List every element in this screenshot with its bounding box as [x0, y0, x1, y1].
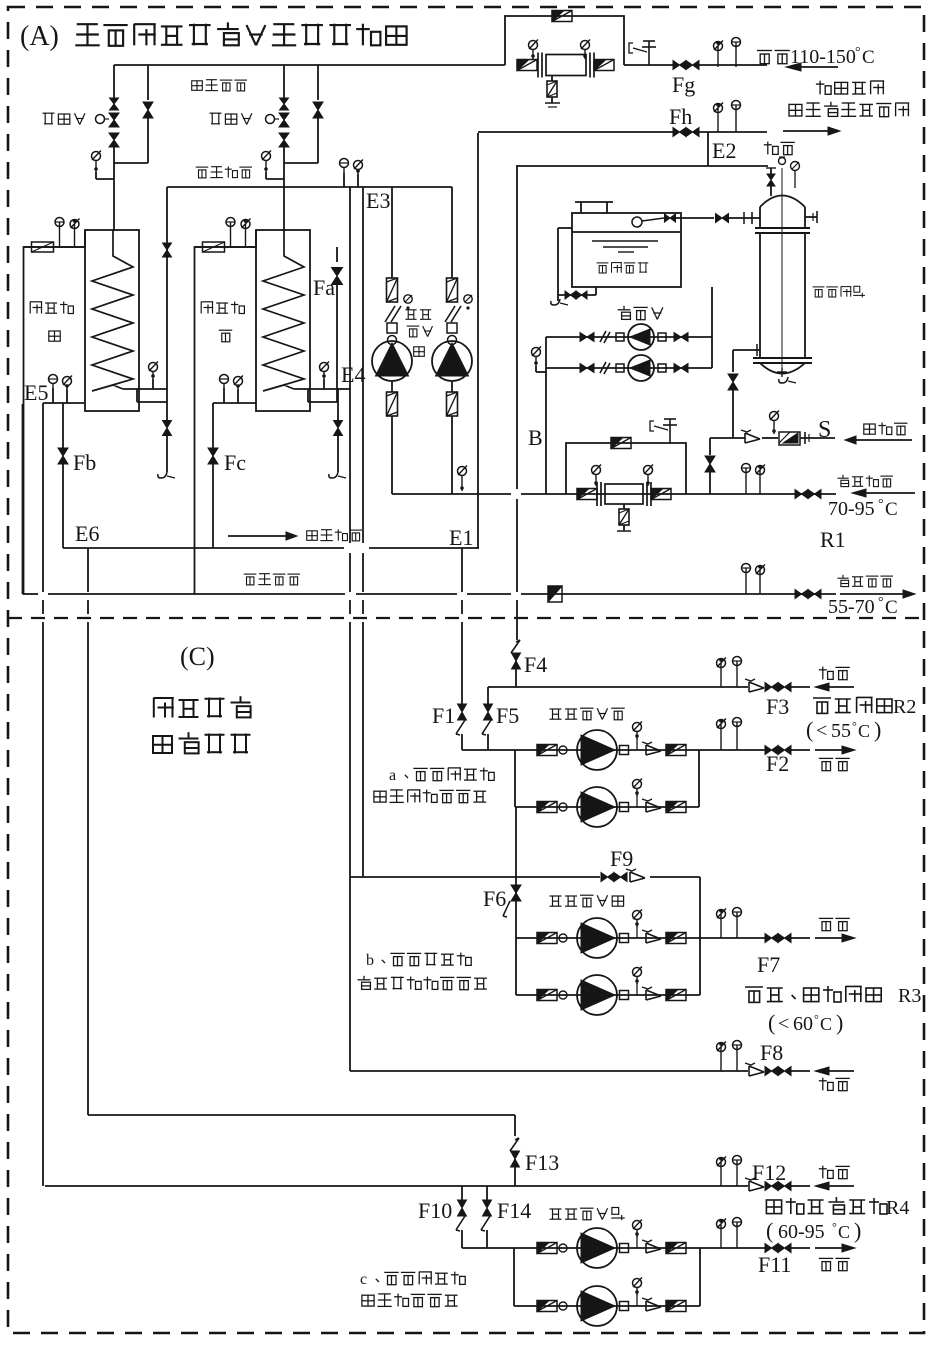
label 一次高温热水网	[789, 102, 909, 117]
gauge pair E5	[49, 375, 73, 404]
svg-text:E3: E3	[366, 188, 390, 213]
title (A)	[20, 21, 407, 52]
makeup pump row pipe	[546, 336, 712, 338]
label 回水 R4	[819, 1166, 850, 1179]
bypass loop top	[505, 16, 624, 65]
section divider A/C dashed line	[8, 617, 925, 619]
label 回水 R2	[819, 667, 850, 680]
meter gate valve L	[517, 60, 537, 71]
flow arrow on supply	[786, 63, 838, 71]
arrow R4 supply	[815, 1244, 855, 1252]
R2 return valve	[765, 683, 791, 692]
svg-text:°: °	[832, 1220, 837, 1234]
label E4	[341, 362, 365, 387]
pipe sec-return right corner	[451, 187, 453, 278]
valve F10	[456, 1186, 467, 1248]
label 水软化罐	[813, 286, 865, 297]
gauge pair at Fh	[714, 101, 741, 133]
meter2 gate L	[577, 489, 597, 500]
svg-text:<: <	[816, 720, 827, 742]
R4 pump row 2	[514, 1286, 700, 1326]
gauge on meter L	[529, 40, 539, 60]
HX top line	[195, 246, 257, 248]
label 循环水泵四	[550, 1208, 625, 1221]
label Fg	[672, 72, 695, 97]
wire drop to HX	[283, 163, 285, 231]
svg-text:(C): (C)	[180, 642, 215, 671]
svg-text:B: B	[528, 425, 543, 450]
softener body	[760, 233, 805, 358]
makeup pump row pipe	[546, 367, 712, 369]
valve Fa	[332, 247, 343, 402]
arrow supply out	[840, 590, 915, 598]
tap check valve	[741, 430, 760, 443]
wire Fh downcomer x478	[477, 133, 479, 494]
pump column filter	[447, 278, 458, 302]
valve F5	[482, 687, 493, 735]
wire E1 riser	[477, 494, 479, 548]
pump outlet filter	[387, 381, 398, 494]
label 55-70C	[828, 595, 898, 618]
softener dome	[760, 196, 805, 208]
makeup row valve2	[674, 333, 688, 342]
HX meter on top line	[32, 242, 54, 252]
label 循环水泵二	[550, 708, 625, 720]
valve F1	[456, 704, 467, 735]
pipe main return y494 mid	[566, 493, 836, 495]
svg-text:F1: F1	[432, 703, 455, 728]
HX drain line	[329, 389, 346, 478]
wire makeup tee riser	[705, 438, 715, 494]
svg-text:): )	[874, 717, 881, 742]
gauge on meter R	[581, 40, 591, 60]
R3 pump row 1	[516, 918, 810, 958]
bypass2 gate valve	[611, 438, 631, 449]
label Fa	[313, 275, 335, 300]
wire sec return stems	[344, 173, 358, 187]
pipe heating supply y594	[23, 593, 837, 595]
label a line1	[389, 767, 494, 784]
wire R3 return left riser	[349, 877, 351, 1071]
tank outlet valve	[716, 212, 753, 224]
softener bottom dome	[760, 363, 805, 374]
label F13	[525, 1150, 559, 1175]
tank bottom outlet	[711, 287, 713, 290]
svg-text:110-150: 110-150	[790, 46, 856, 68]
R2 supply valve	[765, 746, 791, 755]
svg-text:a: a	[389, 767, 396, 784]
label a line2	[374, 790, 486, 803]
gauge pair at Fg	[714, 38, 741, 68]
valve Fc	[208, 403, 218, 548]
label b line1	[366, 952, 471, 969]
label E6	[75, 521, 99, 546]
tap reducer	[779, 432, 800, 445]
R3 supply valve	[765, 934, 791, 943]
meter2 gate R	[651, 489, 671, 500]
pump column gauge	[464, 295, 472, 310]
label 地暖、空调负荷R3	[745, 985, 921, 1007]
svg-text:F14: F14	[497, 1198, 531, 1223]
label 新增设施	[153, 732, 251, 753]
wire gauge tee	[96, 172, 114, 179]
bypass gate valve	[552, 11, 572, 22]
HX gauge right	[149, 362, 159, 390]
pump column filter	[387, 278, 398, 302]
label 地暖负荷R2	[813, 696, 916, 718]
label F5	[496, 703, 519, 728]
HX coil zigzag	[263, 230, 304, 391]
wire F4 to header	[515, 661, 517, 687]
makeup gauge	[532, 347, 547, 373]
title (C)	[180, 642, 215, 671]
wire HX1 mid drop	[163, 187, 172, 389]
label <55C	[806, 717, 881, 742]
svg-text:(A): (A)	[20, 21, 59, 52]
wire elec-valve col drop	[113, 65, 115, 100]
pipe R3 return y1071	[350, 1070, 810, 1072]
valve heating supply	[795, 590, 821, 599]
label 回水	[764, 142, 795, 155]
valve Fg	[673, 61, 699, 70]
svg-text:Fb: Fb	[73, 450, 96, 475]
safety valve top	[629, 41, 656, 65]
softener bottom outlet	[728, 344, 760, 438]
label c line1	[360, 1271, 465, 1288]
label F7	[757, 952, 780, 977]
svg-text:F10: F10	[418, 1198, 452, 1223]
supply meter	[548, 586, 562, 602]
svg-text:c: c	[360, 1271, 367, 1288]
arrow tap in	[845, 436, 912, 444]
makeup pump	[628, 355, 654, 381]
svg-text:°: °	[878, 497, 884, 512]
gauge pair main return	[742, 464, 766, 495]
label 采暖供水	[837, 575, 893, 587]
svg-text:60-95: 60-95	[778, 1221, 825, 1243]
wire E3 drop x363	[362, 187, 364, 877]
arrow R2 return	[815, 683, 854, 691]
svg-text:E1: E1	[449, 525, 473, 550]
svg-text:F6: F6	[483, 886, 506, 911]
wire E4 drop x350	[349, 187, 351, 877]
svg-text:S: S	[818, 417, 831, 443]
label 回水 R3	[819, 1078, 850, 1091]
heat exchanger label box	[24, 230, 86, 594]
pipe R3 feed header y877	[350, 876, 700, 878]
svg-text:F9: F9	[610, 846, 633, 871]
R2 pump row 1	[462, 730, 810, 770]
pipe E5 header	[43, 402, 85, 404]
label F12	[752, 1160, 786, 1185]
makeup suction header	[545, 337, 547, 494]
R4 return valve	[765, 1182, 791, 1191]
arrow R3 return	[815, 1067, 854, 1075]
heat meter cylinder	[538, 53, 594, 78]
gauge pair R4 supply	[717, 1218, 742, 1249]
R3 return valve	[765, 1067, 791, 1076]
meter2 cylinder	[597, 482, 651, 506]
svg-text:(: (	[768, 1010, 775, 1035]
circulation pump	[372, 341, 412, 381]
valve F9	[601, 869, 645, 882]
svg-text:°: °	[852, 719, 857, 733]
pump column gauge	[404, 295, 412, 310]
label E1	[449, 525, 473, 550]
label 70-95C	[828, 497, 898, 520]
label 软化水箱	[597, 262, 649, 273]
tank surface marks	[592, 241, 658, 252]
wire F6 branch	[515, 807, 517, 938]
gauge row1 R4	[633, 1220, 643, 1238]
gauge pair R2 supply	[717, 718, 742, 751]
pipe E6 to F13 y1115	[88, 1114, 515, 1116]
svg-text:55: 55	[831, 720, 851, 742]
meter2 gauge R	[644, 465, 654, 487]
valve on col2	[313, 65, 323, 163]
meter2 gauge L	[592, 465, 602, 487]
pump column flex	[385, 306, 401, 322]
R4 return check	[745, 1178, 764, 1191]
svg-text:R2: R2	[893, 696, 916, 718]
svg-text:F5: F5	[496, 703, 519, 728]
svg-text:E6: E6	[75, 521, 99, 546]
makeup row flex	[600, 331, 610, 343]
label F9	[610, 846, 633, 871]
valve F13	[510, 1115, 520, 1186]
svg-text:): )	[854, 1218, 861, 1243]
valve F6	[503, 885, 521, 917]
makeup row flex	[600, 362, 610, 374]
label Fc	[224, 450, 246, 475]
label c line2	[362, 1294, 458, 1307]
svg-text:°: °	[855, 45, 861, 60]
relief valve 2	[650, 419, 677, 443]
HX label text	[30, 302, 73, 342]
softener drain	[777, 368, 796, 383]
label 二次供水	[244, 574, 300, 585]
svg-text:C: C	[885, 597, 898, 618]
gauge row2 R3	[633, 967, 643, 985]
HX coil zigzag	[92, 230, 133, 391]
label F6	[483, 886, 506, 911]
svg-text:Fh: Fh	[669, 104, 692, 129]
gauge pair R3 return	[717, 1041, 742, 1072]
softener nozzle L	[752, 212, 760, 224]
arrow R4 return	[815, 1182, 854, 1190]
heat exchanger label box	[195, 230, 257, 594]
label 循环水泵一	[405, 310, 432, 357]
makeup row valve2	[674, 364, 688, 373]
svg-text:°: °	[878, 595, 884, 610]
svg-text:E5: E5	[24, 380, 48, 405]
wire pair merge	[284, 162, 318, 164]
arrow R3 supply	[815, 934, 855, 942]
R3 return check	[745, 1063, 764, 1076]
HX gauge pair	[55, 218, 80, 248]
makeup row coupling2	[658, 333, 666, 341]
R2 row2 risers	[515, 750, 699, 807]
label 自来水	[864, 423, 908, 435]
label 来自热源	[816, 81, 884, 95]
label 一次供水	[192, 80, 247, 91]
wire HX2 coil stub	[338, 388, 350, 390]
HX stub y402	[137, 389, 167, 402]
pump column flex	[445, 306, 461, 322]
HX stub y402	[308, 389, 338, 402]
circulation pump	[432, 341, 472, 381]
wire HX1 left drop	[22, 404, 24, 594]
label 空调及散热器R4	[766, 1197, 909, 1219]
softener neck	[760, 207, 805, 228]
label F3	[766, 694, 789, 719]
svg-text:(: (	[766, 1218, 773, 1243]
svg-text:F3: F3	[766, 694, 789, 719]
svg-text:C: C	[885, 499, 898, 520]
makeup row valve	[580, 333, 594, 342]
R2 return check	[745, 679, 764, 692]
label 二次回水	[196, 166, 252, 178]
pump column circle	[448, 336, 457, 345]
softener nozzle R	[805, 211, 817, 223]
makeup row coupling	[616, 333, 624, 341]
arrow R2 supply	[815, 746, 855, 754]
tank water line	[572, 231, 681, 233]
label B	[528, 425, 543, 450]
valve on col2	[143, 65, 153, 163]
gauge row1 R3	[633, 910, 643, 928]
meter2 drain	[617, 504, 631, 531]
tank box	[572, 213, 681, 287]
gauge pair heating supply	[742, 564, 766, 595]
label Fh	[669, 104, 692, 129]
svg-text:R4: R4	[886, 1197, 909, 1219]
HX label text	[201, 302, 244, 342]
pump column coupling	[387, 323, 397, 333]
pipe Fc header	[213, 402, 256, 404]
svg-text:<: <	[778, 1013, 789, 1035]
pipe E2 elbow down	[517, 132, 768, 166]
pipe E6/primary-return header y548	[63, 547, 479, 549]
svg-text:): )	[836, 1010, 843, 1035]
arrow return in	[852, 489, 915, 497]
label S	[818, 417, 831, 443]
motor valve stack	[96, 98, 120, 147]
label b line2	[358, 976, 487, 990]
HX bottom line y389	[123, 388, 167, 390]
label E3	[366, 188, 390, 213]
pipe return y133	[478, 131, 767, 133]
svg-text:E4: E4	[341, 362, 365, 387]
label F2	[766, 751, 789, 776]
softener bottom flange	[753, 358, 812, 363]
valve Fb	[58, 403, 68, 548]
label 供水110-150°C	[757, 45, 875, 68]
label 60-95C	[766, 1218, 861, 1243]
tank hatch	[575, 202, 613, 213]
label 供水 R3	[819, 918, 850, 930]
tank drain	[551, 228, 596, 305]
tap gauge	[770, 411, 780, 435]
gauge pair Fc	[220, 375, 244, 404]
tap flange	[805, 432, 809, 444]
svg-text:Fa: Fa	[313, 275, 335, 300]
svg-text:C: C	[862, 47, 875, 68]
HX top line	[24, 246, 86, 248]
gauge pair R2 return	[717, 657, 742, 688]
svg-text:C: C	[858, 721, 870, 741]
pipe primary supply y65	[114, 64, 767, 66]
R3 pump row 2	[516, 975, 700, 1015]
label 循环水泵三	[550, 895, 624, 907]
HX drain line	[158, 389, 175, 478]
pipe pump discharge header y494	[392, 493, 566, 495]
pipe R4 return header y1186	[45, 1185, 810, 1187]
svg-text:F13: F13	[525, 1150, 559, 1175]
R2 pump row 2	[515, 787, 699, 827]
label E5	[24, 380, 48, 405]
softener center line	[781, 168, 783, 376]
tank float valve	[632, 214, 676, 227]
gauge at merge	[262, 151, 272, 173]
tank outlet pipe	[675, 217, 714, 219]
label Fb	[73, 450, 96, 475]
svg-text:Fg: Fg	[672, 72, 695, 97]
svg-text:E2: E2	[712, 138, 736, 163]
meter2 bypass	[566, 443, 686, 494]
svg-text:R3: R3	[898, 985, 921, 1007]
gauge pair R4 return	[717, 1156, 742, 1187]
R3 risers	[516, 877, 700, 995]
svg-text:F12: F12	[752, 1160, 786, 1185]
wire E6 drop x88	[87, 548, 89, 1115]
svg-text:(: (	[806, 717, 813, 742]
meter gate valve R	[594, 60, 614, 71]
label F4	[524, 652, 547, 677]
pipe R2 return header y687	[488, 686, 810, 688]
label F10	[418, 1198, 452, 1223]
HX meter on top line	[203, 242, 225, 252]
svg-text:F2: F2	[766, 751, 789, 776]
svg-text:60: 60	[793, 1013, 813, 1035]
softener top flange	[755, 228, 810, 233]
gauge at merge	[92, 151, 102, 173]
label 采暖回水	[837, 475, 893, 487]
label 补水泵	[618, 306, 663, 320]
svg-text:F11: F11	[758, 1252, 791, 1277]
wire below valves	[283, 147, 285, 163]
svg-text:F4: F4	[524, 652, 547, 677]
wire drop to HX	[113, 163, 115, 231]
valve F14	[481, 1186, 492, 1248]
makeup discharge riser	[711, 290, 713, 368]
R4 supply valve	[765, 1244, 791, 1253]
valve Fh	[673, 128, 699, 137]
gauge row2	[633, 779, 643, 797]
label 电动阀 2	[210, 113, 252, 125]
HX bottom line y389	[294, 388, 338, 390]
valve F4	[511, 640, 521, 669]
label E2	[712, 138, 736, 163]
gauge row1	[633, 722, 643, 740]
pipe secondary return y187	[167, 186, 452, 188]
wire pair merge	[114, 162, 148, 164]
HX gauge pair	[226, 218, 251, 248]
label 电动阀 1	[43, 113, 86, 125]
R4 pump row 1	[462, 1228, 810, 1268]
valve main return	[795, 490, 821, 499]
svg-text:C: C	[820, 1014, 832, 1034]
